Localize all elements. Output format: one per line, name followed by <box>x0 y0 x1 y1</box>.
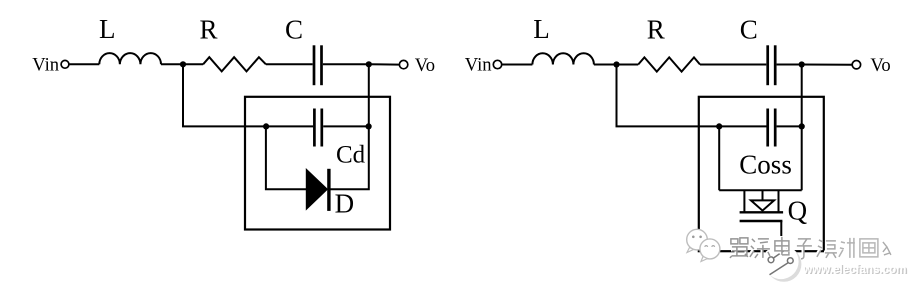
wire node B down to node B2 (right) <box>801 65 803 127</box>
wire Vin to L <box>69 63 99 65</box>
wire node A down and right to Coss <box>617 65 767 127</box>
svg-text:D: D <box>335 189 355 219</box>
mosfet drain leg <box>743 190 745 212</box>
wire Vin to L <box>502 64 532 66</box>
svg-text:Vin: Vin <box>465 54 492 75</box>
node B2 junction dot (right) <box>799 123 805 129</box>
char 7 <box>859 238 878 257</box>
char 6 <box>838 237 855 258</box>
model box (mosfet) <box>699 97 824 251</box>
svg-text:C: C <box>740 14 758 44</box>
terminal Vin (left) <box>61 60 69 68</box>
wire bottom of Coss loop <box>719 189 802 191</box>
wire Coss right leg down <box>801 126 803 190</box>
svg-text:R: R <box>647 14 665 44</box>
svg-text:L: L <box>533 14 550 44</box>
capacitor C (right plate) <box>320 45 323 85</box>
capacitor C right (right plate) <box>774 45 777 85</box>
svg-text:Vin: Vin <box>32 54 59 75</box>
wire R to C <box>266 63 313 65</box>
capacitor Coss (right plate) <box>774 109 777 147</box>
svg-text:Vo: Vo <box>870 55 890 76</box>
mosfet bulk arrow head (hollow) <box>751 200 774 210</box>
char 1 <box>729 237 748 258</box>
svg-text:Coss: Coss <box>739 149 792 179</box>
resistor R <box>203 57 266 71</box>
wire node A2 down to diode anode <box>266 126 306 189</box>
wire R to C (right) <box>700 64 766 66</box>
terminal Vo (left) <box>399 60 407 68</box>
svg-text:C: C <box>285 14 303 44</box>
capacitor Cd (left plate) <box>313 109 316 147</box>
svg-text:Cd: Cd <box>336 141 366 168</box>
wire Coss to node B2 (right) <box>777 125 802 127</box>
wire node A down and right to Cd <box>183 64 313 126</box>
node B junction dot (right) <box>799 61 805 67</box>
mosfet gate bar <box>740 220 783 222</box>
diode D triangle <box>306 169 327 209</box>
svg-text:www.elecfans.com: www.elecfans.com <box>802 263 906 276</box>
watermark bubble icon 1 <box>687 229 708 252</box>
diode D cathode bar <box>327 169 330 211</box>
wire diode cathode to right riser up to node B2 <box>330 126 368 189</box>
inductor L <box>99 53 161 64</box>
node A2 junction dot <box>263 123 269 129</box>
mosfet gate lead down <box>780 221 782 251</box>
resistor R (right) <box>638 57 700 71</box>
wire C to node B <box>323 63 369 65</box>
mosfet source leg <box>778 190 780 212</box>
mosfet channel bar <box>740 211 784 213</box>
char 2 <box>749 238 770 258</box>
node A junction dot <box>180 61 186 67</box>
watermark bubble icon 2 <box>700 239 720 262</box>
svg-text:Vo: Vo <box>415 55 435 76</box>
wire Cd to node B2 <box>323 125 368 127</box>
inductor L (right) <box>532 53 594 64</box>
capacitor Cd (right plate) <box>320 109 323 147</box>
wire node B to Vo <box>369 63 399 65</box>
node A junction dot (right) <box>613 61 619 67</box>
wire node B to Vo (right) <box>802 64 852 66</box>
char 5 <box>816 239 837 258</box>
capacitor C (left plate) <box>313 45 316 85</box>
svg-text:Q: Q <box>788 196 808 226</box>
wire L to node A <box>161 63 203 65</box>
wire C to node B (right) <box>777 64 802 66</box>
node A2 junction dot (right) <box>716 123 722 129</box>
small mark after text <box>882 241 891 255</box>
capacitor Coss (left plate) <box>766 109 769 147</box>
terminal Vin (right) <box>493 60 501 68</box>
char 3 <box>774 236 789 255</box>
mosfet bulk arrow stem <box>762 190 764 200</box>
wire node B down to node B2 <box>368 64 370 126</box>
watermark chinese text (pseudo glyphs, embossed grey) <box>729 236 891 259</box>
node B2 junction dot <box>366 123 372 129</box>
node B junction dot <box>366 61 372 67</box>
watermark logo circle (elecfans emblem) <box>763 244 801 282</box>
char 4 <box>796 238 812 259</box>
model box (diode) <box>245 97 390 230</box>
svg-text:R: R <box>200 14 218 44</box>
capacitor C right (left plate) <box>766 45 769 85</box>
wire L to node A (right) <box>594 64 638 66</box>
wire Coss left leg down <box>718 126 720 190</box>
terminal Vo (right) <box>852 60 860 68</box>
svg-text:L: L <box>99 14 116 44</box>
